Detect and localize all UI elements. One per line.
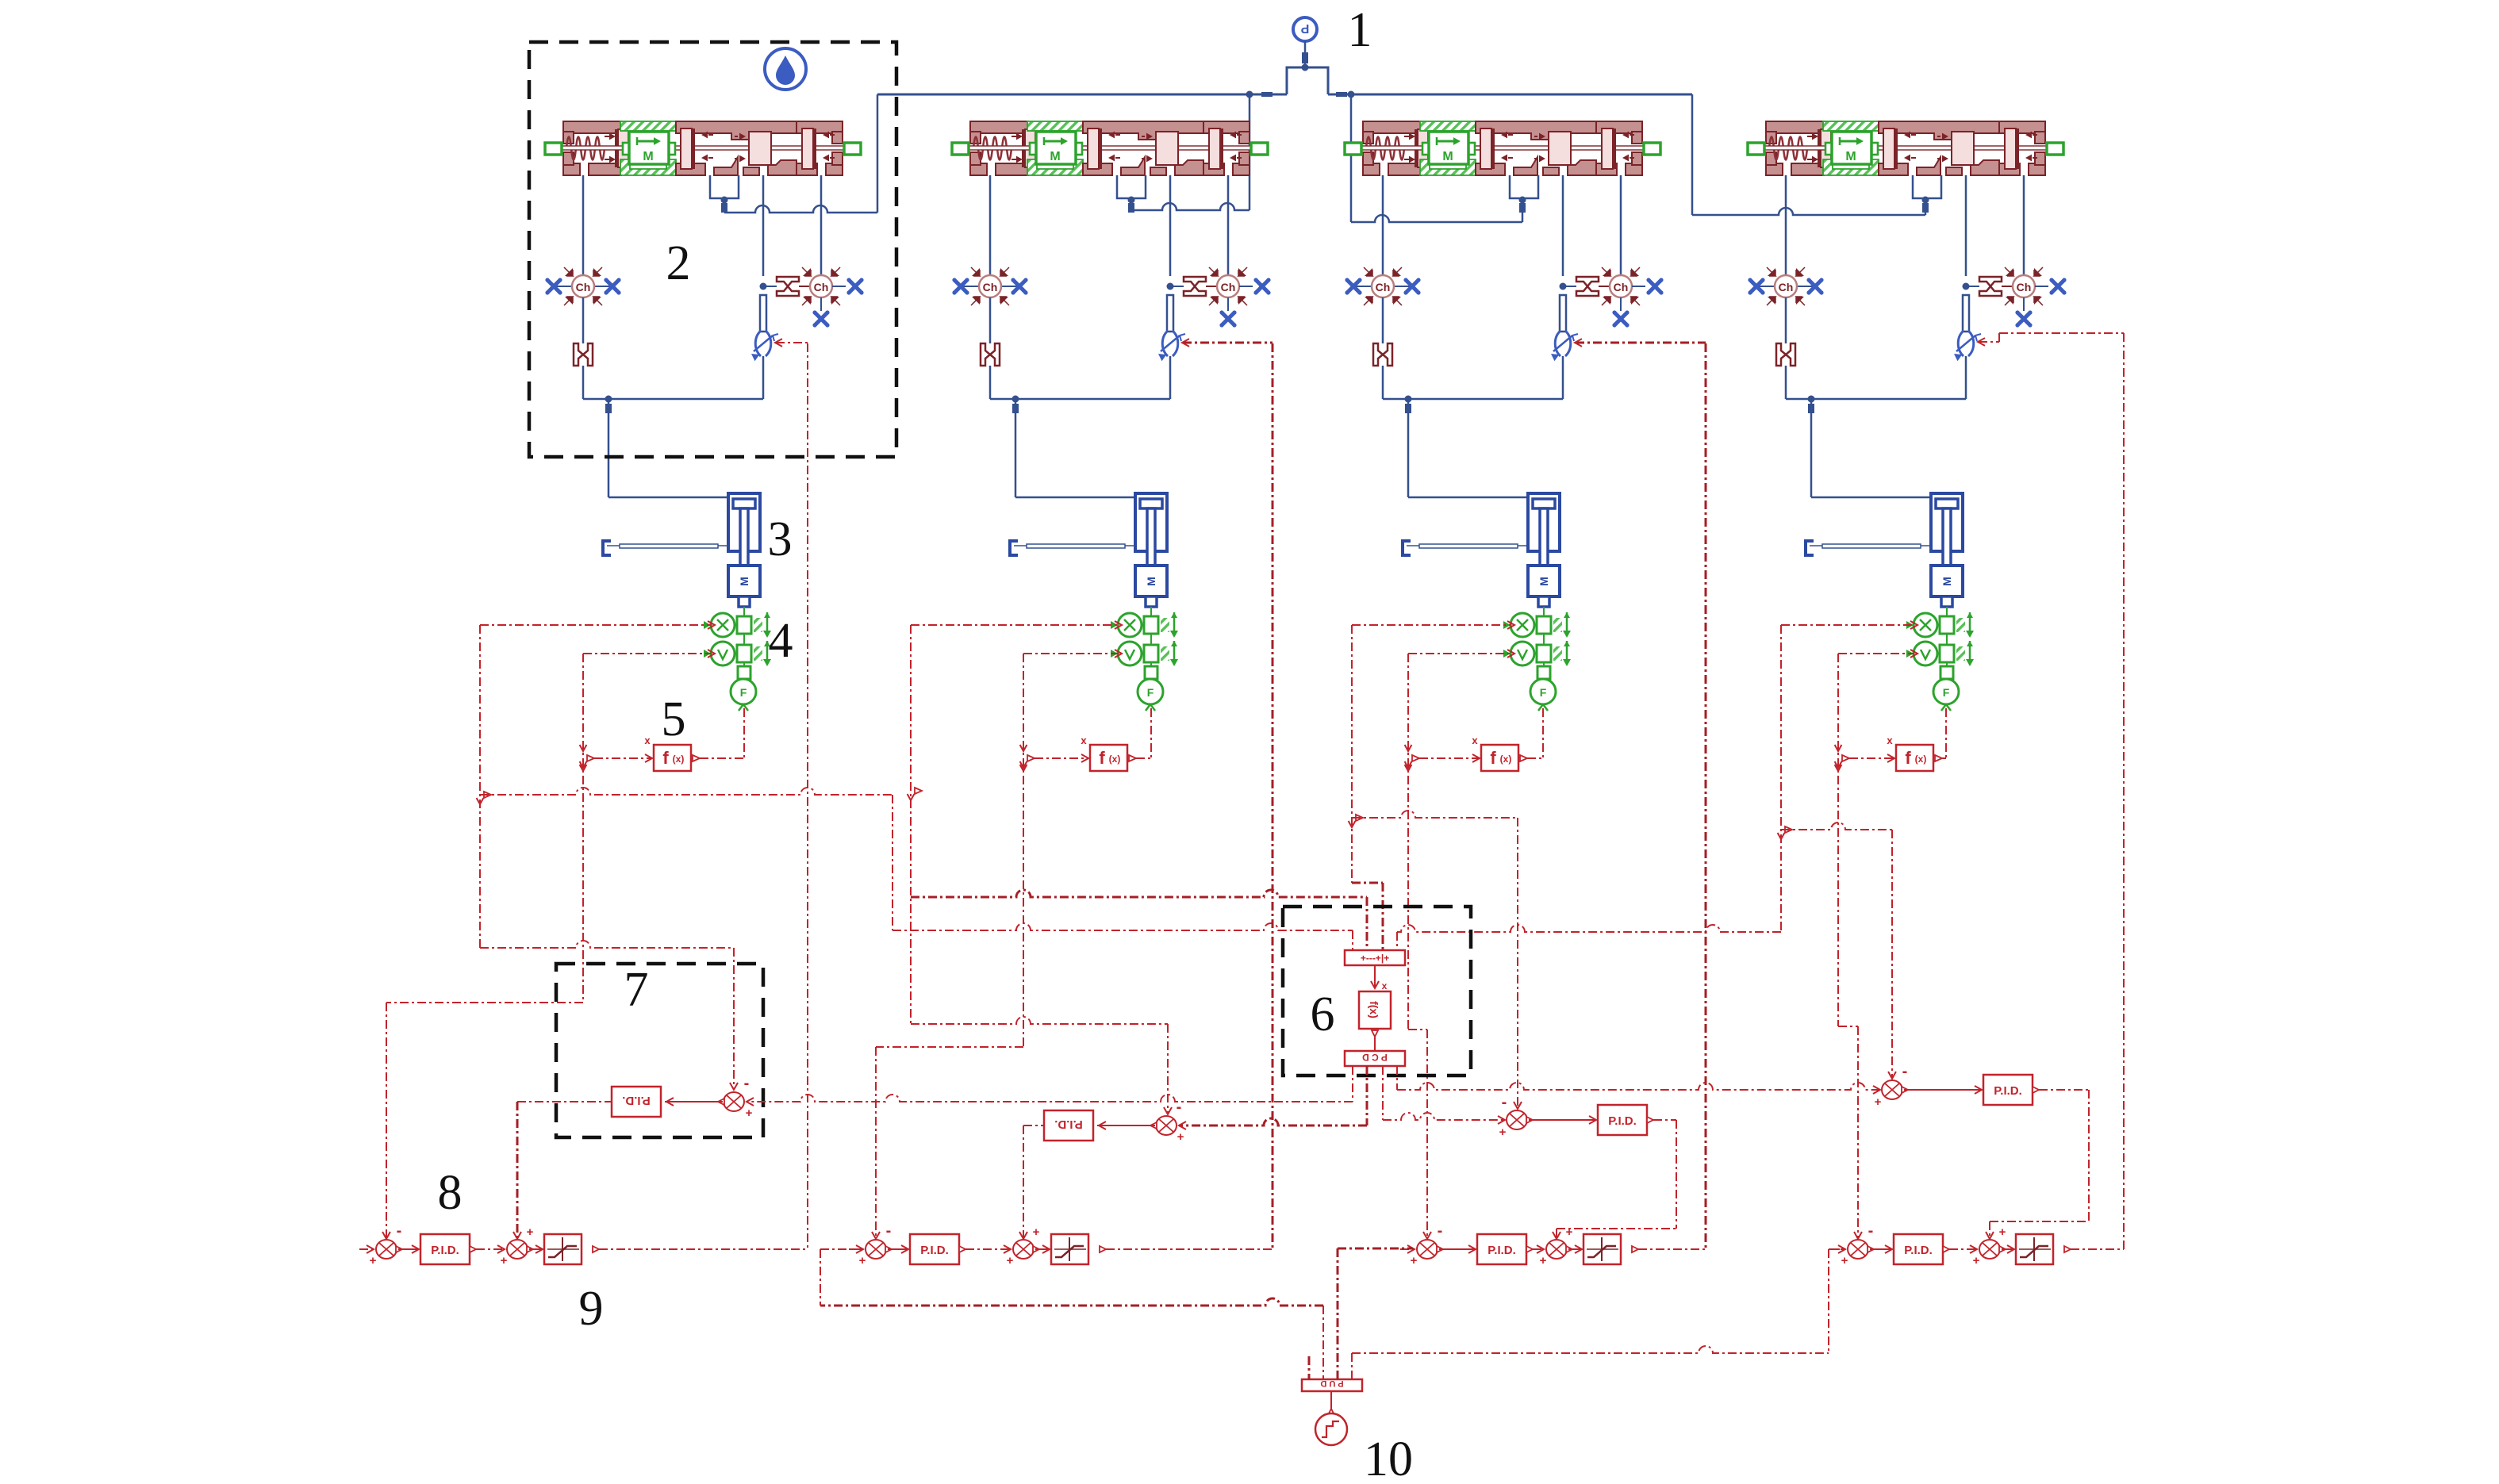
wire: servo orifice down channel 3	[1562, 356, 1564, 399]
signal: X sensor output channel 1	[480, 624, 712, 626]
mass load M channel 3	[1528, 566, 1560, 596]
anchor bracket channel 1	[603, 541, 611, 555]
wire: U-stub channel 1	[724, 198, 726, 213]
signal: X bus channel 1	[480, 788, 892, 795]
signal: V feedback run channel 1	[386, 1002, 583, 1003]
plug left of left chamber channel 3	[1345, 278, 1361, 294]
servo valve assembly channel 3	[1345, 121, 1660, 175]
displacement sensor X channel 3	[1503, 612, 1571, 638]
wire: supply bus right	[1328, 94, 1692, 96]
variable servo orifice channel 1	[751, 331, 778, 361]
PID bottom channel 1	[420, 1234, 470, 1264]
svg-text:+: +	[1841, 1254, 1848, 1267]
function block f(x) channel 1	[654, 745, 691, 771]
svg-text:F: F	[1147, 686, 1154, 699]
orifice before right chamber channel 4	[1979, 277, 2002, 296]
svg-text:P C D: P C D	[1362, 1052, 1388, 1063]
plug right of right chamber channel 3	[1646, 278, 1663, 294]
bottom summing 8 channel 3	[1417, 1240, 1443, 1259]
signal: summing to PID channel 3	[1529, 1119, 1596, 1121]
wire: chamber join run channel 4	[1786, 398, 1966, 401]
svg-text:9: 9	[579, 1282, 604, 1336]
chamber Ch left channel 1	[555, 286, 572, 287]
distributor PCD block	[1345, 1051, 1405, 1066]
plug right of left chamber channel 3	[1403, 278, 1420, 294]
PID bottom channel 3	[1477, 1234, 1526, 1264]
orifice on A-line channel 4	[1776, 343, 1795, 366]
wire: valve B-port down channel 4	[2023, 175, 2025, 275]
sensor stub block channel 4	[1946, 662, 1948, 666]
wire: chamber join run channel 2	[990, 398, 1170, 401]
signal: V feedback to bottom summing channel 2	[875, 1047, 877, 1239]
svg-text:5: 5	[662, 692, 686, 746]
wire: servo orifice down channel 4	[1965, 356, 1967, 399]
wire: orifice down channel 2	[989, 366, 992, 399]
signal: control riser channel 1	[807, 343, 808, 1249]
wire: supply drop channel 2	[1249, 94, 1251, 210]
variable servo orifice channel 4	[1954, 331, 1981, 361]
signal: control riser channel 2	[1272, 343, 1274, 1249]
svg-text:+: +	[1999, 1225, 2006, 1239]
PID mid channel 3	[1598, 1105, 1647, 1135]
pipe segment to servo orifice channel 3	[1560, 295, 1566, 332]
wire: valve spool port down channel 1	[762, 175, 765, 276]
signal: PID to summing 2 channel 4	[1943, 1246, 1949, 1252]
node: bus tap channel 3	[1348, 91, 1355, 98]
svg-text:F: F	[1943, 686, 1950, 699]
node: bus tap channel 2	[1246, 91, 1253, 98]
svg-text:+---+|+: +---+|+	[1361, 953, 1389, 964]
chamber Ch left channel 3	[1355, 286, 1372, 287]
sensor stub block channel 3	[1543, 662, 1545, 666]
signal: distributor out 1 to summing7	[1352, 1066, 1353, 1102]
comparator mux block	[1345, 950, 1405, 965]
PID pressure channel 1	[612, 1087, 661, 1117]
variable servo orifice channel 3	[1551, 331, 1578, 361]
svg-text:x: x	[1887, 734, 1893, 746]
signal: summing to PID channel 4	[1904, 1089, 1982, 1091]
wire: feed to cylinder channel 2	[1015, 497, 1135, 499]
signal: distributor out 4 to mid summing ch4	[1396, 1066, 1398, 1090]
wire: supply drop channel 3	[1350, 94, 1353, 222]
signal: PID output loop channel 4	[2033, 1087, 2039, 1093]
svg-text:7: 7	[624, 963, 649, 1017]
orifice on A-line channel 2	[981, 343, 1000, 366]
wire: feed down channel 3	[1407, 399, 1410, 497]
signal: X to mid summing channel 3	[1352, 811, 1518, 818]
svg-text:10: 10	[1364, 1432, 1413, 1480]
node: junction right group channel 4	[1963, 283, 1970, 290]
svg-text:+: +	[1177, 1130, 1184, 1144]
svg-text:x: x	[1472, 734, 1478, 746]
signal: saturation output channel 4	[2064, 1246, 2071, 1252]
wire: supply run channel 1	[724, 205, 877, 213]
orifice before right chamber channel 2	[1184, 277, 1206, 296]
bottom summing 2 channel 3	[1546, 1240, 1572, 1259]
hydraulic cylinder 3 channel 1	[728, 493, 760, 551]
pipe segment to servo orifice channel 2	[1167, 295, 1173, 332]
signal: V sensor output channel 1	[583, 653, 712, 654]
signal: summing to PID channel 4	[1870, 1248, 1891, 1250]
signal: V feedback vertical channel 3	[1407, 654, 1409, 1030]
signal: V sensor output channel 2	[1023, 653, 1119, 654]
svg-text:+: +	[859, 1254, 866, 1267]
plug left of left chamber channel 2	[952, 278, 969, 294]
signal: summing to saturation channel 1	[529, 1248, 541, 1250]
sensor stub block channel 2	[1150, 662, 1152, 666]
hydraulic cylinder 3 channel 4	[1931, 493, 1963, 551]
plug right of left chamber channel 2	[1011, 278, 1027, 294]
signal: dup out 2 to channel 2	[1322, 1306, 1324, 1379]
wire: mass to sensors channel 1	[743, 607, 745, 616]
signal: to comparator mux input 4	[1397, 925, 1781, 932]
function block f(x) box6	[1359, 991, 1391, 1029]
wire: left chamber to orifice channel 4	[1785, 297, 1787, 343]
wire: U-stub channel 4	[1925, 198, 1927, 215]
pipe segment to servo orifice channel 1	[760, 295, 766, 332]
signal: control riser channel 4	[2123, 333, 2125, 1249]
signal: distributor out 3 to mid summing ch3	[1382, 1066, 1384, 1120]
wire: mass to sensors channel 2	[1150, 607, 1152, 616]
wire: feed to cylinder channel 1	[608, 497, 728, 499]
wire: valve spool port down channel 3	[1562, 175, 1564, 276]
hydraulic cylinder 3 channel 3	[1528, 493, 1560, 551]
orifice before right chamber channel 3	[1576, 277, 1599, 296]
chamber Ch right channel 1	[802, 267, 840, 305]
signal: V feedback vertical channel 1	[582, 654, 584, 1003]
wire: chamber join run channel 1	[583, 398, 763, 401]
signal: summing to PID channel 1	[665, 1101, 723, 1102]
signal: X to mid summing channel 2	[911, 1017, 1168, 1024]
svg-text:-: -	[744, 1075, 750, 1092]
signal: X to summing 7 channel 1	[480, 941, 734, 948]
signal: control riser channel 3	[1705, 343, 1707, 1249]
wire: supply bus step	[1287, 67, 1328, 94]
svg-text:x: x	[1081, 734, 1087, 746]
signal: f(x) to distributor	[1372, 1030, 1378, 1037]
svg-text:3: 3	[768, 512, 793, 566]
wire: mass to sensors channel 3	[1543, 607, 1545, 616]
signal: X feedback vertical channel 2	[910, 625, 912, 1024]
chamber Ch left channel 2	[962, 286, 979, 287]
plug right of right chamber channel 1	[846, 278, 863, 294]
signal: V feedback run channel 2	[876, 1046, 1023, 1048]
signal: to comparator mux input 3	[1352, 882, 1383, 884]
chamber Ch right channel 2	[1209, 267, 1247, 305]
node: cylinder feed junction channel 2	[1012, 396, 1019, 403]
svg-text:6: 6	[1311, 987, 1335, 1041]
wire: supply drop channel 1	[877, 94, 879, 213]
signal: saturation output channel 2	[1100, 1246, 1106, 1252]
svg-text:M: M	[738, 577, 750, 586]
signal: X to mid summing channel 4	[1781, 823, 1892, 830]
svg-text:+: +	[1566, 1225, 1573, 1239]
anchor bracket channel 2	[1010, 541, 1018, 555]
wire: valve U loop channel 2	[1117, 175, 1146, 198]
signal: distributor out 2 to mid summing ch2	[1366, 1066, 1368, 1125]
plug left of left chamber channel 4	[1748, 278, 1764, 294]
summing junction mid channel 2	[1150, 1116, 1177, 1135]
svg-text:+: +	[1540, 1254, 1547, 1267]
plug left of left chamber channel 1	[545, 278, 562, 294]
plug right of left chamber channel 4	[1806, 278, 1823, 294]
dashed box 2 servo valve unit	[529, 42, 896, 457]
svg-text:8: 8	[438, 1166, 463, 1220]
displacement sensor X channel 4	[1906, 612, 1974, 638]
plug right of right chamber channel 2	[1253, 278, 1270, 294]
velocity sensor V channel 3	[1503, 641, 1571, 666]
signal: summing to PID channel 3	[1439, 1248, 1474, 1250]
signal: mux to f(x)	[1374, 965, 1376, 987]
signal: fx input tap channel 4	[1835, 761, 1842, 768]
summing junction box7 channel 1	[718, 1092, 744, 1111]
signal: X feedback vertical channel 3	[1351, 625, 1353, 883]
signal: PID7 output channel 1	[517, 1101, 612, 1102]
signal: saturation output channel 3	[1632, 1246, 1638, 1252]
variable servo orifice channel 2	[1158, 331, 1185, 361]
svg-text:+: +	[527, 1225, 534, 1239]
mass load M channel 2	[1135, 566, 1167, 596]
duplicator DUP block	[1302, 1379, 1362, 1391]
wire+plug below right chamber channel 2	[1227, 297, 1229, 311]
signal: X feedback vertical channel 4	[1780, 625, 1782, 932]
node: cylinder feed junction channel 1	[605, 396, 612, 403]
signal: fx output to force channel 3	[1520, 755, 1527, 761]
wire: valve spool port down channel 4	[1965, 175, 1967, 276]
signal: summing to saturation channel 3	[1568, 1248, 1580, 1250]
PID mirrored channel 2	[1044, 1110, 1093, 1141]
wire: valve U loop channel 3	[1510, 175, 1538, 198]
svg-text:+: +	[1499, 1125, 1507, 1139]
signal: V feedback vertical channel 2	[1023, 654, 1024, 1047]
pressure source 1	[1293, 17, 1317, 41]
displacement sensor X channel 1	[704, 612, 771, 638]
svg-text:M: M	[1145, 577, 1157, 586]
wire: feed down channel 1	[608, 399, 610, 497]
function block f(x) channel 2	[1090, 745, 1127, 771]
anchor bracket channel 4	[1806, 541, 1814, 555]
wire: valve A-port down channel 2	[989, 175, 992, 275]
wire: feed down channel 4	[1810, 399, 1813, 497]
hydraulic cylinder 3 channel 2	[1135, 493, 1167, 551]
bottom summing 2 channel 4	[1979, 1240, 2006, 1259]
svg-text:-: -	[886, 1222, 892, 1240]
signal: dup out 3 to channel 3	[1337, 1248, 1339, 1379]
wire: mass to sensors channel 4	[1946, 607, 1948, 616]
wire: supply run channel 4	[1692, 208, 1925, 215]
signal: fx output to force channel 1	[693, 755, 700, 761]
wire: valve spool port down channel 2	[1169, 175, 1172, 276]
velocity sensor V channel 2	[1111, 641, 1178, 666]
signal: V sensor output channel 4	[1838, 653, 1914, 654]
wire: valve U loop channel 1	[710, 175, 739, 198]
wire: left chamber to orifice channel 2	[989, 297, 992, 343]
svg-text:+: +	[501, 1254, 508, 1267]
signal: X sensor output channel 2	[911, 624, 1119, 626]
mass load M channel 4	[1931, 566, 1963, 596]
signal: V feedback vertical channel 4	[1837, 654, 1839, 1026]
servo valve assembly channel 4	[1748, 121, 2063, 175]
chamber Ch right channel 4	[2005, 267, 2043, 305]
hydraulic fluid drop symbol	[765, 48, 806, 90]
saturation block 9 channel 3	[1583, 1234, 1621, 1264]
orifice before right chamber channel 1	[777, 277, 799, 296]
wire: valve B-port down channel 2	[1227, 175, 1230, 275]
signal: V feedback run channel 4	[1838, 1026, 1858, 1027]
dashed box 6 equalization	[1283, 907, 1471, 1076]
chamber Ch right channel 3	[1602, 267, 1640, 305]
signal: dup out 4 to channel 4	[1351, 1353, 1353, 1379]
force sensor F channel 2	[1138, 679, 1163, 704]
function block f(x) channel 4	[1896, 745, 1933, 771]
signal: V feedback run channel 3	[1408, 1029, 1427, 1030]
wire: supply bus left	[877, 94, 1287, 96]
signal: PID output loop channel 3	[1647, 1117, 1653, 1123]
wire: supply run channel 3	[1351, 215, 1522, 222]
svg-text:+: +	[1973, 1254, 1980, 1267]
bottom summing 2 channel 1	[507, 1240, 533, 1259]
signal: X feedback vertical channel 1	[479, 625, 481, 948]
signal: dup stub 1	[1308, 1356, 1311, 1379]
signal: PID to summing 2 channel 2	[959, 1246, 965, 1252]
wire: chamber join run channel 3	[1383, 398, 1563, 401]
svg-text:-: -	[1902, 1063, 1908, 1080]
svg-text:1: 1	[1348, 3, 1372, 57]
PID bottom channel 4	[1894, 1234, 1943, 1264]
signal: PID to summing 2 channel 3	[1526, 1246, 1533, 1252]
wire: feed to cylinder channel 4	[1811, 497, 1931, 499]
wire: valve B-port down channel 3	[1620, 175, 1622, 275]
servo valve assembly channel 2	[952, 121, 1268, 175]
wire: feed down channel 2	[1015, 399, 1017, 497]
node: junction right group channel 3	[1560, 283, 1567, 290]
velocity sensor V channel 4	[1906, 641, 1974, 666]
wire: supply run channel 2	[1131, 203, 1249, 210]
plug right of right chamber channel 4	[2049, 278, 2066, 294]
svg-text:+: +	[1875, 1095, 1882, 1109]
orifice on A-line channel 1	[574, 343, 593, 366]
wire: valve B-port down channel 1	[820, 175, 823, 275]
saturation block 9 channel 1	[544, 1234, 582, 1264]
wire: U-stub channel 2	[1130, 198, 1133, 210]
bottom summing 8 channel 4	[1848, 1240, 1874, 1259]
signal: fx input tap channel 3	[1405, 761, 1412, 768]
wire: valve A-port down channel 1	[582, 175, 585, 275]
force sensor F channel 3	[1530, 679, 1556, 704]
wire: supply drop channel 4	[1691, 94, 1694, 215]
wire+plug below right chamber channel 1	[820, 297, 822, 311]
signal: saturation output channel 1	[593, 1246, 599, 1252]
svg-text:M: M	[1940, 577, 1953, 586]
svg-text:P: P	[1300, 21, 1309, 35]
svg-text:x: x	[1382, 980, 1388, 991]
signal: to comparator mux input 1	[892, 923, 1353, 930]
bottom summing 2 channel 2	[1013, 1240, 1039, 1259]
wire: orifice down channel 4	[1785, 366, 1787, 399]
signal: fx output to force channel 2	[1129, 755, 1136, 761]
velocity sensor V channel 1	[704, 641, 771, 666]
signal: V feedback to bottom summing channel 3	[1426, 1030, 1428, 1239]
svg-text:2: 2	[666, 236, 691, 290]
svg-text:+: +	[1033, 1225, 1040, 1239]
signal: V feedback to bottom summing channel 4	[1857, 1026, 1859, 1239]
svg-text:f(x): f(x)	[1368, 1001, 1380, 1018]
saturation block 9 channel 4	[2016, 1234, 2053, 1264]
signal: fx input tap channel 2	[1020, 761, 1027, 768]
svg-text:+: +	[1007, 1254, 1014, 1267]
signal: summing to PID channel 2	[888, 1248, 907, 1250]
signal: fx output to force channel 4	[1935, 755, 1942, 761]
svg-text:+: +	[1411, 1254, 1418, 1267]
svg-text:-: -	[1438, 1222, 1443, 1240]
PID bottom channel 2	[910, 1234, 959, 1264]
pipe segment to servo orifice channel 4	[1963, 295, 1969, 332]
signal: X sensor output channel 3	[1352, 624, 1511, 626]
wire+plug below right chamber channel 3	[1620, 297, 1622, 311]
displacement sensor X channel 2	[1111, 612, 1178, 638]
signal: summing to saturation channel 2	[1035, 1248, 1048, 1250]
wire: valve A-port down channel 3	[1382, 175, 1384, 275]
chamber Ch left channel 4	[1758, 286, 1775, 287]
wire: servo orifice down channel 2	[1169, 356, 1172, 399]
sensor stub block channel 1	[743, 662, 745, 666]
force sensor F channel 4	[1933, 679, 1959, 704]
signal: summing to PID channel 1	[398, 1248, 417, 1250]
saturation block 9 channel 2	[1051, 1234, 1088, 1264]
signal: V feedback to bottom summing channel 1	[386, 1003, 387, 1239]
summing junction mid channel 4	[1882, 1080, 1908, 1099]
svg-text:-: -	[1502, 1094, 1507, 1111]
wire: left chamber to orifice channel 1	[582, 297, 585, 343]
signal: PID to summing 2 channel 1	[470, 1246, 476, 1252]
signal: summing to PID channel 2	[1097, 1125, 1155, 1126]
bottom summing 8 channel 1	[376, 1240, 402, 1259]
svg-text:4: 4	[769, 614, 793, 668]
dashed box 7 pressure loop	[556, 964, 763, 1137]
servo valve assembly channel 1	[545, 121, 861, 175]
summing junction mid channel 3	[1507, 1110, 1533, 1129]
signal: to comparator mux input 2	[911, 890, 1367, 897]
signal: summing to saturation channel 4	[2002, 1248, 2013, 1250]
wire: feed to cylinder channel 3	[1408, 497, 1528, 499]
node: cylinder feed junction channel 3	[1405, 396, 1412, 403]
svg-text:-: -	[397, 1222, 402, 1240]
function block f(x) channel 3	[1481, 745, 1518, 771]
svg-text:x: x	[644, 734, 651, 746]
svg-text:P U D: P U D	[1320, 1379, 1343, 1388]
wire: U-stub channel 3	[1522, 198, 1524, 222]
signal: PID output channel 2	[1023, 1125, 1044, 1126]
node: junction right group channel 2	[1167, 283, 1174, 290]
node: X branch channel 1	[477, 798, 484, 804]
svg-text:F: F	[1540, 686, 1547, 699]
signal: fx input tap channel 1	[580, 761, 587, 768]
svg-text:M: M	[1537, 577, 1550, 586]
node: junction right group channel 1	[760, 283, 767, 290]
svg-text:-: -	[1868, 1222, 1874, 1240]
bottom summing 8 channel 2	[866, 1240, 892, 1259]
signal source 10	[1330, 1391, 1332, 1413]
plug right of left chamber channel 1	[604, 278, 620, 294]
node: cylinder feed junction channel 4	[1808, 396, 1815, 403]
svg-text:+: +	[746, 1106, 753, 1120]
svg-text:F: F	[740, 686, 747, 699]
wire: source stem	[1304, 41, 1307, 67]
wire: valve U loop channel 4	[1913, 175, 1941, 198]
signal: V sensor output channel 3	[1408, 653, 1511, 654]
wire: valve A-port down channel 4	[1785, 175, 1787, 275]
wire+plug below right chamber channel 4	[2023, 297, 2025, 311]
